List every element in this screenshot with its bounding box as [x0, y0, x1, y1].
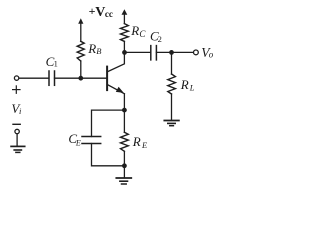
capacitor C1 [49, 71, 55, 85]
label Vi [11, 101, 22, 116]
Vcc arrow of RB [78, 18, 83, 41]
wire RC to collector node [123, 41, 125, 52]
resistor RC [121, 24, 129, 42]
svg-text:R: R [180, 77, 189, 92]
wire emitter node to RE [123, 110, 125, 132]
node RE bottom junction [122, 163, 127, 168]
wire RL to ground [171, 94, 173, 120]
label RE [132, 134, 148, 150]
wire RE to ground [123, 151, 125, 178]
wire collector to C2 [125, 51, 151, 53]
resistor RE [121, 132, 129, 151]
node collector junction [122, 50, 127, 55]
resistor RB [77, 41, 84, 61]
label RC [130, 23, 146, 39]
transistor Q1 base bar [106, 67, 108, 91]
node base junction [78, 76, 83, 81]
svg-text:V: V [95, 5, 105, 20]
svg-text:o: o [209, 49, 214, 59]
svg-text:cc: cc [105, 9, 113, 19]
svg-text:i: i [19, 106, 22, 116]
label CE [68, 131, 81, 147]
capacitor C2 [151, 46, 157, 60]
ground (RL) [164, 121, 179, 126]
input terminal (top, open circle) [14, 76, 18, 80]
svg-text:C: C [139, 29, 146, 39]
svg-text:R: R [132, 134, 141, 149]
svg-text:L: L [189, 82, 195, 92]
label RB [87, 41, 101, 56]
label Vo [201, 45, 214, 60]
wire Vi terminal to ground [16, 134, 18, 146]
wire RB to base node [80, 61, 82, 78]
ground (RE) [116, 178, 131, 184]
svg-text:2: 2 [158, 34, 162, 44]
svg-text:R: R [87, 41, 96, 56]
label C1 [46, 54, 58, 69]
label RL [180, 77, 195, 92]
svg-text:1: 1 [54, 59, 58, 69]
label +Vcc [89, 4, 113, 20]
node output junction [169, 50, 174, 55]
wire emitter node to CE top [92, 110, 125, 136]
ground (Vi) [11, 146, 25, 152]
wire C2 to output [156, 51, 192, 53]
wire input to C1 [19, 77, 49, 79]
svg-text:E: E [75, 138, 81, 147]
svg-text:B: B [96, 46, 101, 56]
transistor Q1 collector lead [107, 52, 124, 72]
svg-text:E: E [141, 140, 148, 150]
svg-text:R: R [130, 23, 139, 38]
label C2 [150, 28, 162, 43]
resistor RL [168, 74, 176, 94]
capacitor CE [82, 137, 101, 144]
minus sign [13, 123, 20, 125]
wire CE bottom [92, 144, 125, 166]
Vcc arrow of RC [122, 9, 128, 23]
wire C1 to base [55, 77, 107, 79]
transistor Q1 emitter lead with arrow [107, 85, 124, 111]
source Vi terminal (bottom, open circle) [15, 129, 19, 133]
node emitter junction [122, 108, 127, 113]
wire output node to RL [171, 52, 173, 74]
plus sign [13, 86, 20, 93]
output terminal Vo (open circle) [194, 50, 199, 55]
